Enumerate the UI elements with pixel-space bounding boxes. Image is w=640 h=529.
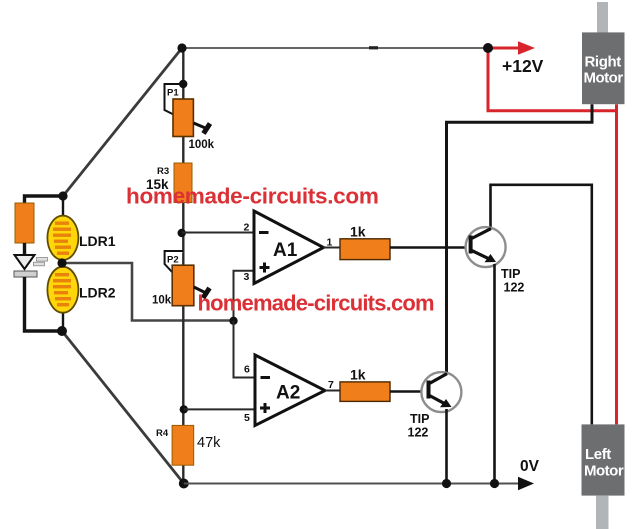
tick on top rail: [369, 46, 378, 49]
svg-text:A2: A2: [276, 383, 300, 404]
node: Q1 emitter at 0V rail: [490, 479, 499, 488]
wire: red +12V feed to motors: [488, 48, 617, 424]
svg-text:7: 7: [328, 379, 334, 391]
wire: A1 pin 3 input: [234, 271, 255, 321]
node: P1 top junction: [179, 80, 187, 88]
LDR2: [47, 267, 78, 313]
node: LDR midpoint junction: [57, 258, 66, 267]
wire: 1k to Q2 base: [390, 390, 429, 393]
svg-text:P1: P1: [167, 88, 179, 99]
transistor Q2 TIP122: [421, 372, 461, 412]
+12V arrow: [490, 47, 519, 50]
wire: left branch (top junction to series resistor): [25, 196, 64, 204]
svg-text:3: 3: [244, 271, 250, 283]
svg-text:122: 122: [408, 426, 429, 440]
wire: top +12V rail: [182, 47, 516, 49]
svg-text:Right: Right: [585, 54, 622, 71]
node: 0V rail left end: [179, 479, 189, 489]
wire: diagonal from LDR top junction to top rail: [63, 48, 182, 196]
wire: A2 pin 6 input: [234, 321, 256, 378]
resistor R3: [174, 163, 192, 203]
node: LDR bottom junction: [57, 326, 67, 336]
svg-text:P2: P2: [167, 255, 179, 266]
svg-text:5: 5: [244, 412, 250, 424]
motor M2 Left Motor: [582, 424, 625, 529]
wire: LDR column (top junction through LDRs to bottom junction): [62, 196, 64, 218]
resistor 1k (A1 output): [340, 239, 390, 260]
LED D1: [14, 255, 48, 277]
svg-text:LDR2: LDR2: [79, 285, 116, 301]
svg-text:1k: 1k: [350, 224, 366, 240]
svg-text:TIP: TIP: [501, 267, 520, 281]
0V arrow: [518, 477, 534, 491]
svg-text:1k: 1k: [350, 367, 366, 383]
svg-text:0V: 0V: [520, 458, 540, 475]
wire: Q1 emitter to 0V rail: [493, 264, 496, 484]
svg-text:homemade-circuits.com: homemade-circuits.com: [198, 291, 435, 316]
transistor Q1 TIP122: [466, 227, 506, 267]
svg-text:R3: R3: [157, 166, 169, 177]
node: Q2 emitter at 0V rail: [442, 479, 451, 488]
wire: A1 output: [324, 247, 342, 249]
svg-text:LDR1: LDR1: [79, 233, 116, 249]
svg-text:R4: R4: [156, 428, 169, 439]
wire: resistor to LED: [23, 243, 26, 256]
resistor R4: [172, 425, 194, 465]
svg-text:Left: Left: [585, 446, 611, 463]
svg-text:Motor: Motor: [584, 70, 624, 87]
svg-text:10k: 10k: [152, 295, 172, 307]
svg-text:homemade-circuits.com: homemade-circuits.com: [126, 184, 379, 209]
wire: A2 pin 5 input: [184, 408, 255, 410]
wire: LED to bottom junction: [25, 277, 63, 331]
svg-text:+12V: +12V: [502, 56, 544, 76]
motor M1 Right Motor: [582, 2, 625, 104]
wire: Right Motor terminal to Q2 collector: [447, 104, 593, 374]
op-amp A2: [255, 355, 325, 426]
wire: 1k to Q1 base: [390, 246, 471, 249]
svg-text:6: 6: [244, 364, 250, 376]
svg-text:A1: A1: [273, 240, 298, 261]
svg-text:Motor: Motor: [584, 463, 624, 480]
svg-text:100k: 100k: [189, 139, 215, 151]
svg-text:2: 2: [244, 222, 250, 234]
node: LDR top junction: [58, 191, 67, 200]
wire: A2 output: [325, 390, 341, 392]
wire: 0V rail: [184, 483, 519, 485]
op-amp A1: [254, 211, 324, 284]
wire: Q2 emitter to 0V rail: [445, 409, 448, 484]
node: R3/P2 junction: [178, 229, 186, 237]
wire: diagonal from LDR bottom junction to 0V rail: [62, 331, 184, 484]
potentiometer P2: [165, 251, 210, 306]
node: +12V takeoff junction: [483, 43, 493, 53]
resistor (LED series, unlabeled): [15, 203, 34, 243]
wire: A1 pin 2 input: [182, 232, 254, 234]
resistor 1k (A2 output): [340, 382, 390, 402]
LDR1: [47, 216, 78, 260]
wire: LDR midpoint to op-amp input junction: [62, 263, 234, 321]
svg-text:122: 122: [504, 281, 525, 295]
svg-text:47k: 47k: [197, 435, 221, 451]
wire: Q1 collector up and over to Left Motor: [491, 185, 592, 425]
svg-text:TIP: TIP: [410, 412, 429, 426]
node: op-amp inputs junction: [229, 317, 237, 325]
potentiometer P1: [165, 84, 211, 137]
node: top rail / P1 junction: [177, 43, 186, 52]
wire: middle column vertical segments: [182, 48, 184, 484]
node: P2/R4/pin5 junction: [180, 405, 188, 413]
